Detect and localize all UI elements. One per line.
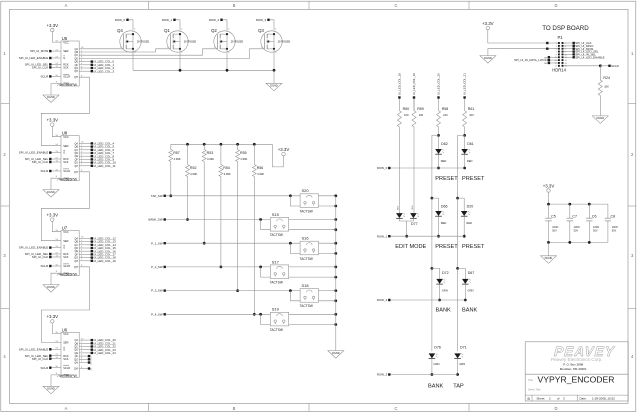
svg-text:P. O. Box 2898: P. O. Box 2898 [563,363,583,367]
svg-text:TACTSW: TACTSW [270,233,283,237]
svg-text:C: C [394,406,397,411]
wire U5 QD to Q3 gate [79,49,264,59]
power +3.3V for caps [543,183,555,192]
wire +3.3V to P1 [488,30,558,44]
net label SPI_UI_IN_SEL [564,53,597,57]
svg-text:VCC: VCC [63,41,69,45]
LED D77 dual RED/GRN [396,99,419,238]
svg-text:SER: SER [63,49,68,53]
wire S20 right pins to ground bus [319,194,338,207]
svg-text:+3.3V: +3.3V [543,183,555,188]
svg-text:A: A [65,3,68,8]
power +3.3V pull-up rail [278,147,290,156]
net label SCLR [40,366,61,370]
U6 left pin numbers [55,332,58,375]
svg-text:Q4: Q4 [117,28,123,33]
net label SPI_UI_CLK [32,255,61,259]
svg-text:SCK: SCK [63,66,69,70]
svg-text:Date:: Date: [580,397,587,401]
net label SPI_UI_LED_ENABLE [564,55,605,59]
wire VCC supply [52,32,61,42]
svg-text:C7: C7 [572,214,577,218]
company address [551,357,603,371]
resistor R52 4.99K [186,144,198,221]
wire S19 lower-left pin [259,313,270,325]
svg-text:U5: U5 [62,36,68,41]
svg-text:of: of [557,397,560,401]
svg-text:U7: U7 [62,226,68,231]
IC U8 74HC595PW [57,131,79,182]
wire DGND to P1 [488,48,558,56]
svg-text:S15: S15 [272,212,280,217]
ground DGND below U5 [43,95,59,103]
svg-text:+3.3V: +3.3V [46,117,58,122]
net label UI_LED_COL_12 [79,237,116,241]
svg-text:GRN: GRN [468,288,474,292]
svg-text:UI_LED_COL_19: UI_LED_COL_19 [93,259,116,263]
svg-text:Peavey Electronics Corp.: Peavey Electronics Corp. [551,357,603,362]
wire daisy chain QH' to SER [41,77,89,146]
svg-text:SCK: SCK [63,357,69,361]
svg-text:ROW_1: ROW_1 [162,18,173,22]
svg-text:R55: R55 [240,151,247,155]
svg-text:SER: SER [63,144,68,148]
svg-text:TAP_SW: TAP_SW [151,194,163,198]
svg-text:QH: QH [74,362,78,365]
wire cap bottom rail [547,241,608,256]
wire U5 QA to Q4 gate [79,48,123,50]
svg-text:R54: R54 [223,166,230,170]
resistor R60 100 [397,99,409,127]
net label ROW_0 [377,166,465,170]
svg-text:+3.3V: +3.3V [46,212,58,217]
svg-text:100: 100 [404,113,409,117]
net label UI_LED_COL_4 [79,142,114,146]
svg-text:50V: 50V [552,230,557,233]
svg-text:TACTSW: TACTSW [270,328,283,332]
net label SPI_UI_MOSI [30,49,61,53]
wire GND [51,375,61,386]
switch S18 TACTSW [300,283,319,308]
svg-text:5: 5 [556,49,557,51]
svg-text:GRN: GRN [412,205,414,210]
svg-text:C8: C8 [611,214,616,218]
svg-text:NC: NC [544,63,548,65]
U6 output pin numbers [81,338,84,368]
svg-text:BANK: BANK [428,384,444,390]
svg-text:QH': QH' [74,76,79,79]
power +3.3V for U5 [46,23,58,32]
switch S19 TACTSW [270,307,289,332]
svg-text:QH': QH' [74,368,79,371]
svg-text:2N7002E: 2N7002E [184,39,197,43]
svg-text:A: A [65,406,68,411]
svg-text:SCLR: SCLR [63,169,70,173]
net label SPI_UI_LED_ENABLE [19,151,61,155]
net label UI_LED_COL_13 [79,240,116,244]
wire switch ground bus [335,196,337,351]
svg-text:SPI_UI_CLK: SPI_UI_CLK [32,66,48,70]
LED D20 RED [458,198,474,238]
svg-text:BANK_SW: BANK_SW [148,218,162,222]
no-connect pin [79,358,91,362]
net label UI_LED_COL_18 [79,256,116,260]
wire S17 lower-left pin [259,266,270,278]
svg-text:4.99K: 4.99K [240,157,247,161]
wire S18 lower-left pin [289,289,300,301]
transistor Q2 2N7002E [211,28,243,54]
svg-text:C5: C5 [551,214,556,218]
svg-text:Q1: Q1 [164,28,170,33]
svg-text:SPI_UI_LED_ENABLE: SPI_UI_LED_ENABLE [19,151,48,155]
svg-text:DGND: DGND [47,285,55,289]
svg-text:R60: R60 [403,107,410,111]
svg-text:G: G [63,151,65,155]
svg-text:R59: R59 [417,107,424,111]
net label UI_LED_COL_0 [79,60,114,64]
svg-text:B: B [233,406,236,411]
net label UI_LED_COL_1 [79,63,114,67]
svg-text:ROW_2: ROW_2 [209,18,220,22]
wire GND [51,178,61,189]
U8 output pin numbers [81,142,84,172]
wire +3.3V rail for pull-ups [171,143,284,167]
svg-text:D20: D20 [467,204,474,208]
svg-text:D77: D77 [411,222,418,226]
capacitor C7 100N 50V [567,204,580,242]
svg-text:BANK: BANK [436,308,452,314]
svg-text:RED: RED [467,159,473,163]
net label UI_LED_COL_20 [437,73,441,99]
svg-text:SER: SER [63,341,68,345]
svg-text:100: 100 [443,113,448,117]
net label UI_LED_COL_5 [79,145,114,149]
no-connect QH' U6 [79,367,91,371]
svg-text:SER: SER [63,239,68,243]
net label SPI_UI_MISO [564,44,595,48]
svg-text:+3.3V: +3.3V [278,147,290,152]
no-connect pin [79,361,91,365]
ground DGND below U8 [43,190,59,198]
svg-text:TACTSW: TACTSW [300,304,313,308]
svg-text:100: 100 [419,113,424,117]
svg-text:VCC: VCC [63,332,69,336]
svg-text:UI_LED_COL_3: UI_LED_COL_3 [93,69,114,73]
wire source rail [133,49,275,83]
svg-text:D67: D67 [468,271,475,275]
svg-text:P_4_SW: P_4_SW [151,312,163,316]
wire S15 right pins to ground bus [289,218,337,231]
net label ROW_1 [377,234,464,238]
svg-text:DGND: DGND [47,95,55,99]
svg-text:BANK: BANK [462,308,478,314]
IC U7 74HC595PW [57,226,79,277]
svg-text:ROW_0: ROW_0 [377,166,388,170]
svg-text:U8: U8 [62,131,68,136]
svg-text:QH': QH' [74,266,79,269]
sheet title field [528,388,541,392]
net label ROW_3 [256,18,274,31]
LED D76 GRN [429,346,441,376]
svg-text:3: 3 [556,46,557,48]
svg-text:ROW_2: ROW_2 [377,298,388,302]
svg-text:VCC: VCC [63,230,69,234]
svg-text:Q3: Q3 [258,28,264,33]
svg-text:ROW_3: ROW_3 [256,18,267,22]
svg-text:DGND: DGND [47,190,55,194]
svg-text:SPI_UI_IN_DATA_LATCH: SPI_UI_IN_DATA_LATCH [514,58,547,62]
svg-text:S16: S16 [302,236,310,241]
svg-text:R61: R61 [468,107,475,111]
svg-text:PRESET: PRESET [462,176,485,182]
net label UI_LED_COL_18 [397,73,401,99]
revision and sheet fields [527,397,615,401]
net label UI_LED_COL_3 [79,69,114,73]
svg-text:SPI_UI_CLK: SPI_UI_CLK [32,357,48,361]
LED D67 GRN [458,268,475,301]
net label SPI_UI_MOSI [564,47,594,51]
net label ROW_3 [377,373,458,377]
svg-text:SCK: SCK [63,160,69,164]
resistor R56 4.99K [252,144,264,315]
svg-text:G: G [63,347,65,351]
wire GND [51,84,61,95]
svg-text:D: D [554,406,557,411]
wire S20 lower-left pin [289,194,300,206]
svg-text:UI_LED_COL_20: UI_LED_COL_20 [437,73,441,95]
wire GND [51,273,61,284]
ground DGND below R24 [592,116,608,124]
svg-text:Sheet Title:: Sheet Title: [528,388,541,392]
svg-text:UI_LED_COL_11: UI_LED_COL_11 [93,164,116,168]
svg-text:10K: 10K [604,85,609,89]
wire S19 right pins to ground bus [289,313,337,326]
ground DGND at connector [480,56,496,64]
net label P_1_SW [151,241,300,245]
svg-text:4.99K: 4.99K [224,172,231,176]
caption BANK row2 [436,308,478,314]
resistor R55 4.99K [236,144,248,292]
net label UI_LED_COL_17 [79,253,116,257]
transistor Q1 2N7002E [164,28,196,54]
net label SPI_UI_CLK [564,41,592,45]
svg-text:SCLR: SCLR [40,264,48,268]
svg-text:DGND: DGND [270,84,278,88]
net label ROW_0 [115,18,133,31]
power +3.3V for U8 [46,117,58,126]
net label SPI_UI_CLK [32,160,61,164]
LED D66 RED [432,198,448,238]
svg-text:PRESET: PRESET [462,244,485,250]
svg-text:SCLR: SCLR [40,366,48,370]
net label BANK_SW [148,218,270,222]
svg-text:GRN: GRN [442,288,448,292]
wire LED column [437,127,440,137]
svg-text:QH: QH [74,70,78,73]
U5 output pin numbers [81,47,84,77]
wire S16 right pins to ground bus [319,242,338,255]
net label SCLR [40,169,61,173]
resistor R53 4.99K [202,144,214,244]
svg-text:TACTSW: TACTSW [300,209,313,213]
svg-text:GRN: GRN [459,362,465,366]
wire VCC supply [52,126,61,136]
caption EDIT MODE / PRESET row1 [395,244,485,250]
net label TAP_SW [151,194,300,198]
svg-text:EDIT MODE: EDIT MODE [395,244,426,250]
wire SCLR net [564,64,619,68]
svg-text:UI_LED_COL_19: UI_LED_COL_19 [412,73,416,95]
resistor R57 4.99K [169,144,181,197]
net label SCLR [40,264,61,268]
svg-text:+3.3V: +3.3V [46,314,58,319]
svg-text:+3.3V: +3.3V [482,21,494,26]
svg-text:C: C [394,3,397,8]
net label UI_LED_COL_7 [79,151,114,155]
ground DGND below switches [328,351,344,359]
U7 output pin numbers [81,237,84,267]
net label UI_LED_COL_23 [79,348,116,352]
LED D71 GRN [454,346,466,376]
net label SPI_UI_LED_SEL [25,63,61,67]
LED D62 RED [435,135,447,169]
svg-text:DGND: DGND [545,256,553,260]
svg-text:2N7002E: 2N7002E [137,39,150,43]
svg-text:DGND: DGND [332,351,340,355]
svg-text:SPI_UI_MOSI: SPI_UI_MOSI [30,49,48,53]
power +3.3V for U6 [46,314,58,323]
svg-text:VYPYR_ENCODER: VYPYR_ENCODER [538,375,615,385]
net label SPI_UI_LED_SEL [25,354,61,358]
U7 left pin numbers [55,230,58,273]
net label ROW_2 [377,298,465,302]
svg-text:1: 1 [556,43,557,45]
net label UI_LED_COL_21 [79,341,116,345]
svg-text:SCLR: SCLR [611,64,619,68]
connector P1 HDR14 [552,35,567,73]
svg-text:D76: D76 [434,346,441,350]
svg-text:TACTSW: TACTSW [300,257,313,261]
svg-text:4.99K: 4.99K [207,157,214,161]
net label SPI_UI_LED_ENABLE [19,246,61,250]
svg-text:S18: S18 [302,283,310,288]
wire VCC supply [52,221,61,231]
net label UI_LED_COL_14 [79,243,116,247]
wire cap top rail [547,192,608,205]
title block [525,342,628,401]
net label P_2_SW [151,265,270,269]
title VYPYR_ENCODER [528,375,614,385]
U8 left pin numbers [55,135,58,178]
svg-text:RED: RED [441,221,447,225]
svg-text:ROW_0: ROW_0 [115,18,126,22]
svg-text:R58: R58 [442,107,449,111]
svg-text:SCK: SCK [63,255,69,259]
svg-text:QH: QH [74,260,78,263]
svg-text:R24: R24 [603,76,610,80]
svg-text:RED: RED [441,159,447,163]
no-connect P1 pin 11 [544,56,558,59]
svg-text:SPI_UI_LED_ENABLE: SPI_UI_LED_ENABLE [19,347,48,351]
svg-text:S19: S19 [272,307,280,312]
svg-text:D62: D62 [441,142,448,146]
net label SPI_UI_LED_SEL [25,252,61,256]
svg-text:G: G [63,56,65,60]
svg-text:2N7002E: 2N7002E [278,39,291,43]
svg-text:QH': QH' [74,171,79,174]
switch S20 TACTSW [300,188,319,213]
net label UI_LED_COL_2 [79,66,114,70]
svg-text:DGND: DGND [47,387,55,391]
net label SCLR [40,75,61,79]
LED D61 RED [461,135,473,169]
power +3.3V for U7 [46,212,58,221]
svg-text:B: B [233,3,236,8]
svg-text:7: 7 [556,51,557,53]
svg-text:TO DSP BOARD: TO DSP BOARD [542,25,589,32]
svg-text:QH: QH [74,165,78,168]
svg-text:TAP: TAP [453,384,464,390]
svg-text:SCLR: SCLR [63,366,70,370]
wire LED column [463,127,466,137]
svg-text:50V: 50V [574,230,579,233]
svg-text:SCLR: SCLR [40,75,48,79]
svg-text:P_2_SW: P_2_SW [151,265,163,269]
svg-text:ROW_1: ROW_1 [377,234,388,238]
svg-text:Title:: Title: [528,378,534,382]
svg-text:50V: 50V [593,230,598,233]
net label SPI_UI_CLK [32,357,61,361]
resistor R24 10K [598,66,610,116]
net label UI_LED_COL_16 [79,249,116,253]
net label UI_LED_COL_19 [412,73,416,99]
svg-text:UI_LED_COL_21: UI_LED_COL_21 [463,73,467,95]
svg-text:DGND: DGND [596,116,604,120]
svg-text:Q2: Q2 [211,28,217,33]
svg-text:C6: C6 [592,214,597,218]
caption PRESET row0 [435,176,485,182]
svg-text:SCLR: SCLR [63,75,70,79]
caption BANK TAP row3 [428,384,464,390]
svg-text:TACTSW: TACTSW [270,281,283,285]
svg-text:14: 14 [565,60,567,62]
svg-text:P1: P1 [558,35,564,40]
svg-text:9: 9 [556,54,557,56]
transistor Q4 2N7002E [117,28,149,54]
net label UI_LED_COL_10 [79,161,116,165]
svg-text:PRESET: PRESET [435,244,458,250]
ground DGND below Q3 [266,83,282,91]
resistor R54 4.99K [219,144,231,268]
wire S18 right pins to ground bus [319,289,338,302]
net label UI_LED_COL_11 [79,164,116,168]
svg-text:R53: R53 [207,151,214,155]
net label SPI_UI_IN_DATA_LATCH [514,58,558,62]
svg-text:PRESET: PRESET [435,176,458,182]
svg-text:R57: R57 [173,151,180,155]
wire U5 QB to Q1 gate [79,49,170,52]
svg-text:4.99K: 4.99K [257,172,264,176]
wire VCC supply [52,323,61,333]
svg-text:UI_LED_COL_18: UI_LED_COL_18 [397,73,401,95]
capacitor C5 100N 50V [545,204,558,242]
svg-text:HDR14: HDR14 [552,68,566,73]
LED D72 GRN [432,268,449,301]
wire daisy chain QH' to SER [41,172,89,241]
svg-text:2N7002E: 2N7002E [231,39,244,43]
net label UI_LED_COL_9 [79,158,114,162]
resistor R59 100 [412,99,424,127]
